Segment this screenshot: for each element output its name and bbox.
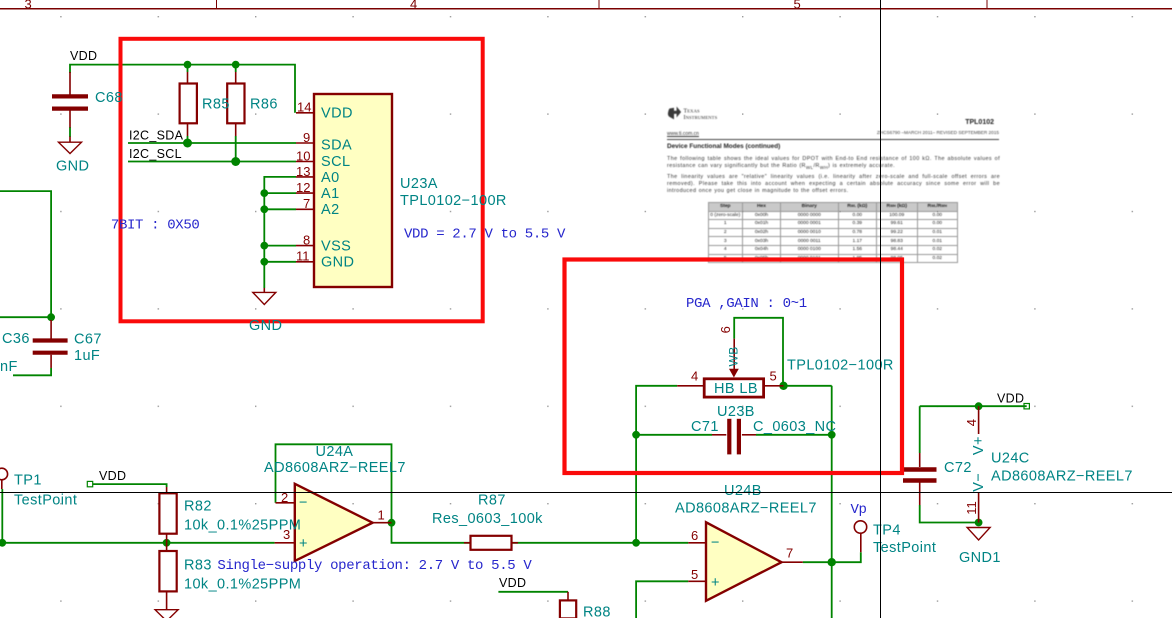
svg-text:GND1: GND1 bbox=[959, 550, 1001, 566]
svg-text:Vp: Vp bbox=[851, 502, 867, 518]
svg-text:C71: C71 bbox=[691, 419, 719, 435]
svg-text:C_0603_NC: C_0603_NC bbox=[753, 419, 836, 435]
svg-text:−: − bbox=[299, 495, 308, 511]
svg-text:5: 5 bbox=[691, 567, 698, 582]
svg-text:AD8608ARZ−REEL7: AD8608ARZ−REEL7 bbox=[264, 460, 406, 476]
svg-text:12: 12 bbox=[296, 180, 310, 195]
svg-text:7BIT : 0X50: 7BIT : 0X50 bbox=[111, 218, 200, 234]
svg-text:3: 3 bbox=[25, 0, 32, 11]
svg-text:VDD: VDD bbox=[70, 49, 97, 63]
svg-text:7: 7 bbox=[303, 196, 310, 211]
svg-text:V−: V− bbox=[971, 473, 987, 492]
svg-text:R88: R88 bbox=[583, 605, 611, 618]
svg-text:TPL0102−100R: TPL0102−100R bbox=[400, 193, 507, 209]
svg-text:4: 4 bbox=[964, 419, 979, 426]
svg-text:GND: GND bbox=[249, 318, 282, 334]
svg-text:−: − bbox=[711, 535, 720, 551]
svg-text:4: 4 bbox=[410, 0, 417, 11]
svg-text:VDD: VDD bbox=[321, 106, 353, 122]
svg-text:9: 9 bbox=[303, 130, 310, 145]
svg-text:VDD: VDD bbox=[99, 469, 126, 483]
svg-text:VDD: VDD bbox=[499, 576, 526, 590]
svg-text:AD8608ARZ−REEL7: AD8608ARZ−REEL7 bbox=[991, 469, 1133, 485]
svg-text:SDA: SDA bbox=[321, 138, 352, 154]
svg-text:6: 6 bbox=[718, 326, 733, 333]
svg-text:U23A: U23A bbox=[400, 176, 438, 192]
svg-text:R83: R83 bbox=[184, 558, 212, 574]
svg-text:Single−supply operation: 2.7 V: Single−supply operation: 2.7 V to 5.5 V bbox=[217, 558, 532, 574]
svg-text:TestPoint: TestPoint bbox=[14, 493, 77, 509]
svg-text:TP4: TP4 bbox=[873, 523, 901, 539]
svg-text:1uF: 1uF bbox=[74, 348, 100, 364]
svg-text:A0: A0 bbox=[321, 170, 340, 186]
svg-text:R82: R82 bbox=[184, 499, 212, 515]
svg-text:GND: GND bbox=[56, 159, 89, 175]
svg-text:10k_0.1%25PPM: 10k_0.1%25PPM bbox=[184, 577, 301, 593]
svg-text:C36: C36 bbox=[2, 331, 30, 347]
svg-text:I2C_SDA: I2C_SDA bbox=[129, 129, 184, 143]
svg-text:A1: A1 bbox=[321, 186, 340, 202]
svg-text:TP1: TP1 bbox=[14, 473, 42, 489]
svg-text:U23B: U23B bbox=[717, 404, 755, 420]
svg-text:C67: C67 bbox=[74, 332, 102, 348]
svg-text:TPL0102−100R: TPL0102−100R bbox=[787, 358, 894, 374]
svg-text:6: 6 bbox=[691, 528, 698, 543]
svg-text:4: 4 bbox=[691, 369, 698, 384]
svg-text:I2C_SCL: I2C_SCL bbox=[129, 147, 182, 161]
svg-text:11: 11 bbox=[964, 501, 979, 515]
svg-text:5: 5 bbox=[794, 0, 801, 11]
svg-text:PGA ,GAIN : 0~1: PGA ,GAIN : 0~1 bbox=[686, 296, 807, 312]
svg-text:5: 5 bbox=[770, 369, 777, 384]
svg-text:C68: C68 bbox=[95, 90, 123, 106]
svg-text:Res_0603_100k: Res_0603_100k bbox=[432, 511, 543, 527]
svg-text:C72: C72 bbox=[944, 460, 972, 476]
svg-text:TestPoint: TestPoint bbox=[873, 540, 936, 556]
svg-text:U24A: U24A bbox=[316, 444, 354, 460]
svg-text:13: 13 bbox=[296, 164, 310, 179]
svg-text:8: 8 bbox=[303, 232, 310, 247]
svg-text:VDD: VDD bbox=[997, 392, 1024, 406]
svg-text:VDD = 2.7 V to 5.5 V: VDD = 2.7 V to 5.5 V bbox=[404, 227, 566, 243]
svg-text:U24B: U24B bbox=[724, 483, 762, 499]
svg-text:HB LB: HB LB bbox=[714, 381, 758, 397]
svg-text:U24C: U24C bbox=[991, 451, 1030, 467]
svg-text:VSS: VSS bbox=[321, 239, 351, 255]
svg-text:+: + bbox=[711, 575, 720, 591]
svg-text:GND: GND bbox=[321, 255, 354, 271]
svg-text:11: 11 bbox=[296, 249, 310, 264]
svg-text:1: 1 bbox=[378, 508, 385, 523]
svg-text:3: 3 bbox=[283, 527, 290, 542]
svg-text:SCL: SCL bbox=[321, 154, 350, 170]
svg-text:+: + bbox=[299, 536, 308, 552]
svg-text:14: 14 bbox=[297, 99, 311, 114]
svg-text:V+: V+ bbox=[971, 436, 987, 455]
svg-text:nF: nF bbox=[0, 359, 18, 375]
svg-text:R85: R85 bbox=[202, 97, 230, 113]
svg-text:WB: WB bbox=[727, 346, 741, 366]
svg-text:7: 7 bbox=[786, 546, 793, 561]
svg-text:A2: A2 bbox=[321, 202, 340, 218]
svg-text:R86: R86 bbox=[250, 97, 278, 113]
svg-text:10: 10 bbox=[296, 148, 310, 163]
svg-text:AD8608ARZ−REEL7: AD8608ARZ−REEL7 bbox=[675, 501, 817, 517]
svg-text:R87: R87 bbox=[478, 493, 506, 509]
